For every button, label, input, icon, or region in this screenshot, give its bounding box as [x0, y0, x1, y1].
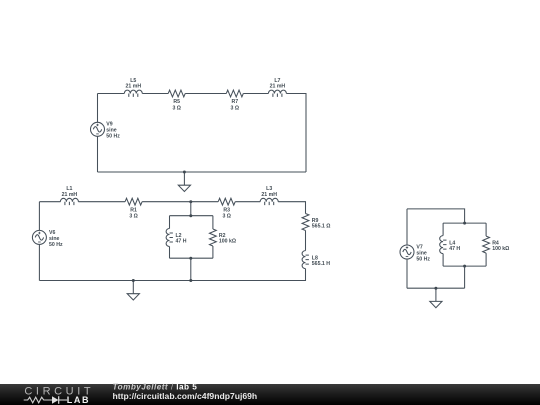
- resistor R4 (vertical): [483, 236, 490, 253]
- stem to bottom wire: [464, 266, 466, 288]
- junction dot box bottom: [463, 265, 466, 268]
- footer bar: [0, 384, 540, 405]
- resistor R5: [168, 90, 185, 97]
- svg-text:LAB: LAB: [67, 395, 90, 405]
- wire L8 down to bottom-right corner: [39, 269, 305, 281]
- junction dot box top: [463, 222, 466, 225]
- wire L5 to R5: [142, 93, 168, 95]
- wire top-right corner down: [286, 94, 306, 173]
- inductor L7: [268, 90, 286, 97]
- wire L1 to R1: [78, 201, 125, 203]
- wire R5 to R7: [185, 93, 226, 95]
- svg-text:http://circuitlab.com/c4f9ndp7: http://circuitlab.com/c4f9ndp7uj69h: [113, 391, 258, 401]
- wire to top-right corner, down to R9: [278, 202, 305, 214]
- inductor L3: [260, 198, 278, 205]
- wire R7 to L7: [243, 93, 268, 95]
- junction dot at middle ground: [132, 279, 135, 282]
- left branch lower wire: [442, 254, 444, 267]
- inductor L1: [60, 198, 78, 205]
- left branch lower wire: [169, 247, 171, 259]
- resistor R2 (vertical): [210, 229, 217, 246]
- logo resistor zigzag: [24, 397, 67, 403]
- bottom wire: [407, 287, 465, 289]
- voltage source V7: [400, 245, 414, 259]
- voltage source V9: [91, 122, 105, 136]
- wire left side with source V9: [97, 94, 99, 173]
- junction dot box bottom: [189, 257, 192, 260]
- wire left side with source V7: [406, 209, 408, 288]
- resistor R9 (vertical): [302, 214, 309, 231]
- left branch upper wire: [442, 223, 444, 236]
- resistor R1: [125, 198, 142, 205]
- wire R9 to L8: [305, 231, 307, 251]
- right branch upper wire: [485, 223, 487, 236]
- inductor L2 (vertical): [166, 229, 173, 247]
- parallel box top rail: [443, 222, 486, 224]
- parallel box bottom rail: [170, 257, 213, 259]
- ground (top circuit): [178, 172, 190, 192]
- parallel box bottom rail: [443, 265, 486, 267]
- ground (right circuit): [430, 288, 442, 308]
- wire R1 to node: [142, 201, 218, 203]
- wire R3 to L3: [235, 201, 260, 203]
- junction node on top wire: [189, 200, 192, 203]
- left branch upper wire: [169, 216, 171, 229]
- wire top side: [407, 209, 465, 223]
- parallel box top rail: [170, 215, 213, 217]
- right branch upper wire: [212, 216, 214, 229]
- wire top side left: [39, 201, 60, 203]
- right branch lower wire: [212, 246, 214, 258]
- junction dot at right ground: [434, 287, 437, 290]
- wire left side with source V6: [38, 202, 40, 281]
- wire bottom side: [98, 171, 307, 173]
- junction dot box top: [189, 214, 192, 217]
- stem node to parallel box: [190, 202, 192, 216]
- wire top side (left segment): [98, 93, 125, 95]
- stem box to bottom wire: [190, 258, 192, 280]
- inductor L5: [124, 90, 142, 97]
- junction dot bottom wire: [189, 279, 192, 282]
- inductor L4 (vertical): [440, 236, 447, 254]
- logo diode: [59, 399, 67, 401]
- resistor R3: [218, 198, 235, 205]
- inductor L8 (vertical): [302, 251, 309, 269]
- voltage source V6: [32, 230, 46, 244]
- right branch lower wire: [485, 253, 487, 266]
- junction dot at ground: [183, 171, 186, 174]
- ground (middle circuit): [127, 281, 139, 301]
- resistor R7: [226, 90, 243, 97]
